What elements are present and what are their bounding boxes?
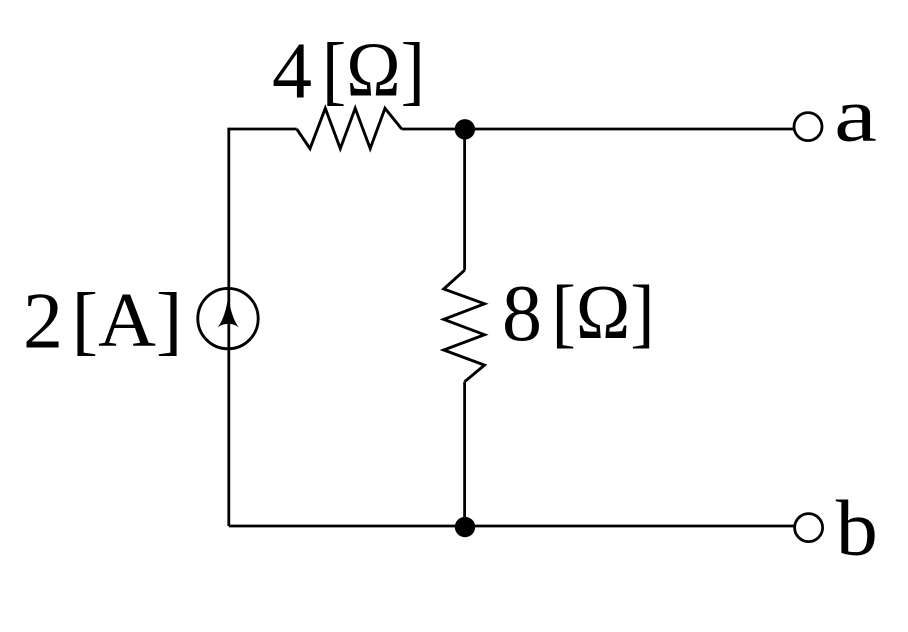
wire: middle vertical upper segment xyxy=(463,129,466,270)
wire: top horizontal from R1 to terminal a xyxy=(402,128,794,131)
svg-text:[Ω]: [Ω] xyxy=(552,270,655,355)
wire: middle vertical lower segment xyxy=(463,382,466,526)
junction node (bottom) xyxy=(455,517,475,537)
label terminal b xyxy=(836,484,878,573)
wire: bottom horizontal xyxy=(229,525,795,528)
junction node (top, at R1/R2) xyxy=(455,119,475,139)
wire: top-left horizontal segment xyxy=(227,128,296,131)
terminal b (open circle) xyxy=(795,514,823,542)
svg-text:4: 4 xyxy=(272,27,312,115)
svg-text:[A]: [A] xyxy=(72,277,183,362)
current source I1 circle xyxy=(198,288,258,348)
svg-text:2: 2 xyxy=(23,277,63,365)
resistor R1 4[Ω] (horizontal zigzag) xyxy=(297,108,402,148)
wire: left vertical (through current source) xyxy=(227,129,230,526)
svg-text:a: a xyxy=(834,72,877,158)
current source I1 arrow (pointing up) xyxy=(217,294,239,328)
svg-text:8: 8 xyxy=(502,270,542,358)
terminal a (open circle) xyxy=(794,113,822,141)
svg-text:b: b xyxy=(836,484,878,573)
resistor R2 8[Ω] (vertical zigzag) xyxy=(444,270,485,382)
label terminal a xyxy=(834,72,877,158)
svg-text:[Ω]: [Ω] xyxy=(322,28,425,113)
